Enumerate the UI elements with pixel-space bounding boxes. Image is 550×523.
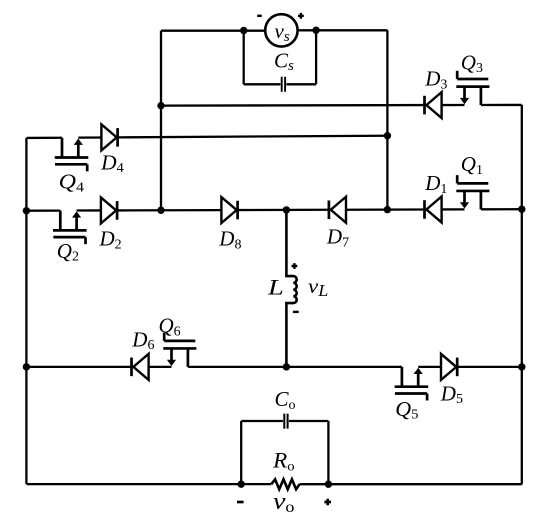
wire D7 to D1	[346, 208, 425, 211]
wire Q3 to right rail	[481, 104, 522, 106]
node top right at Cs leg	[312, 27, 319, 34]
diode D7	[329, 197, 346, 223]
node junction row D3 at left inner vertical	[157, 102, 164, 109]
polarity minus of vo	[237, 501, 244, 504]
wire Q4 arrow to D4	[78, 136, 101, 138]
transistor Q6	[163, 333, 196, 367]
node main row at right rail	[518, 206, 525, 213]
wire main row from left rail	[26, 209, 60, 211]
wire Cs left leg	[243, 30, 245, 84]
svg-text:L: L	[267, 274, 284, 299]
wire Cs right leg	[315, 30, 317, 84]
diode D4	[101, 124, 117, 150]
wire Q5 arrow to D5	[418, 366, 441, 368]
transistor Q5	[395, 367, 429, 401]
wire right outer vertical	[521, 105, 523, 484]
wire Co top left	[241, 420, 283, 422]
wire left outer vertical	[25, 138, 27, 484]
node row D5 at right rail	[518, 363, 525, 370]
transistor Q3	[456, 71, 489, 105]
capacitor Co	[284, 414, 287, 429]
node bottom rail left of Ro	[238, 480, 245, 487]
wire bottom rail right	[300, 483, 522, 485]
node main row inductor tap	[283, 206, 290, 213]
wire Co left leg	[240, 421, 242, 484]
node main row at left rail	[23, 207, 30, 214]
polarity plus of vL	[292, 263, 298, 269]
wire row Q4 from left rail	[26, 137, 62, 140]
wire D2 to D8	[117, 209, 221, 212]
inductor L with coil	[286, 210, 296, 367]
polarity minus of vL	[293, 311, 299, 313]
capacitor Cs	[282, 77, 285, 92]
resistor Ro	[271, 479, 299, 489]
diode D5	[441, 354, 457, 380]
transistor Q2	[53, 211, 87, 245]
node main row at right inner vertical	[384, 206, 391, 213]
wire Co right leg	[327, 421, 329, 484]
node row D6 at left rail	[23, 363, 30, 370]
diode D8	[221, 197, 237, 223]
wire Q2 arrow to D2	[77, 209, 101, 211]
polarity minus of vs	[257, 15, 262, 17]
node bottom rail right of Ro	[325, 481, 332, 488]
wire Cs bottom right	[286, 83, 316, 85]
wire bottom rail left	[26, 483, 271, 485]
wire Cs bottom left	[244, 83, 281, 85]
wire top rail right of source	[298, 29, 388, 31]
node main row at left inner vertical	[157, 207, 164, 214]
polarity plus of vo	[324, 499, 331, 506]
wire Co top right	[289, 420, 329, 422]
wire D8 to D7	[238, 209, 329, 212]
node inductor bottom	[283, 363, 290, 370]
wire row D6 from left rail	[26, 366, 131, 368]
diode D6	[132, 354, 149, 380]
wire Q1 to right rail	[481, 208, 522, 210]
wire D1 to Q1 arrow	[442, 208, 465, 210]
wire D3 to Q3 arrow	[442, 104, 465, 106]
node junction row Q4 at right inner vertical	[384, 132, 391, 139]
transistor Q4	[55, 138, 89, 172]
polarity plus of vs	[298, 13, 304, 19]
wire D5 to right rail	[457, 366, 522, 368]
wire D4 to right inner vertical	[118, 136, 388, 138]
node top left at Cs leg	[240, 27, 247, 34]
wire top rail left of source	[161, 30, 265, 32]
diode D2	[101, 197, 117, 223]
wire Q6 to Q5	[188, 366, 402, 368]
wire left inner vertical	[160, 31, 162, 211]
wire D6 to Q6 arrow	[149, 366, 172, 368]
diode D1	[425, 196, 442, 222]
wire right inner vertical	[386, 30, 388, 209]
source vs circle	[265, 14, 297, 46]
wire row D3 from left inner vertical	[161, 104, 425, 107]
diode D3	[425, 92, 442, 118]
transistor Q1	[456, 175, 489, 209]
